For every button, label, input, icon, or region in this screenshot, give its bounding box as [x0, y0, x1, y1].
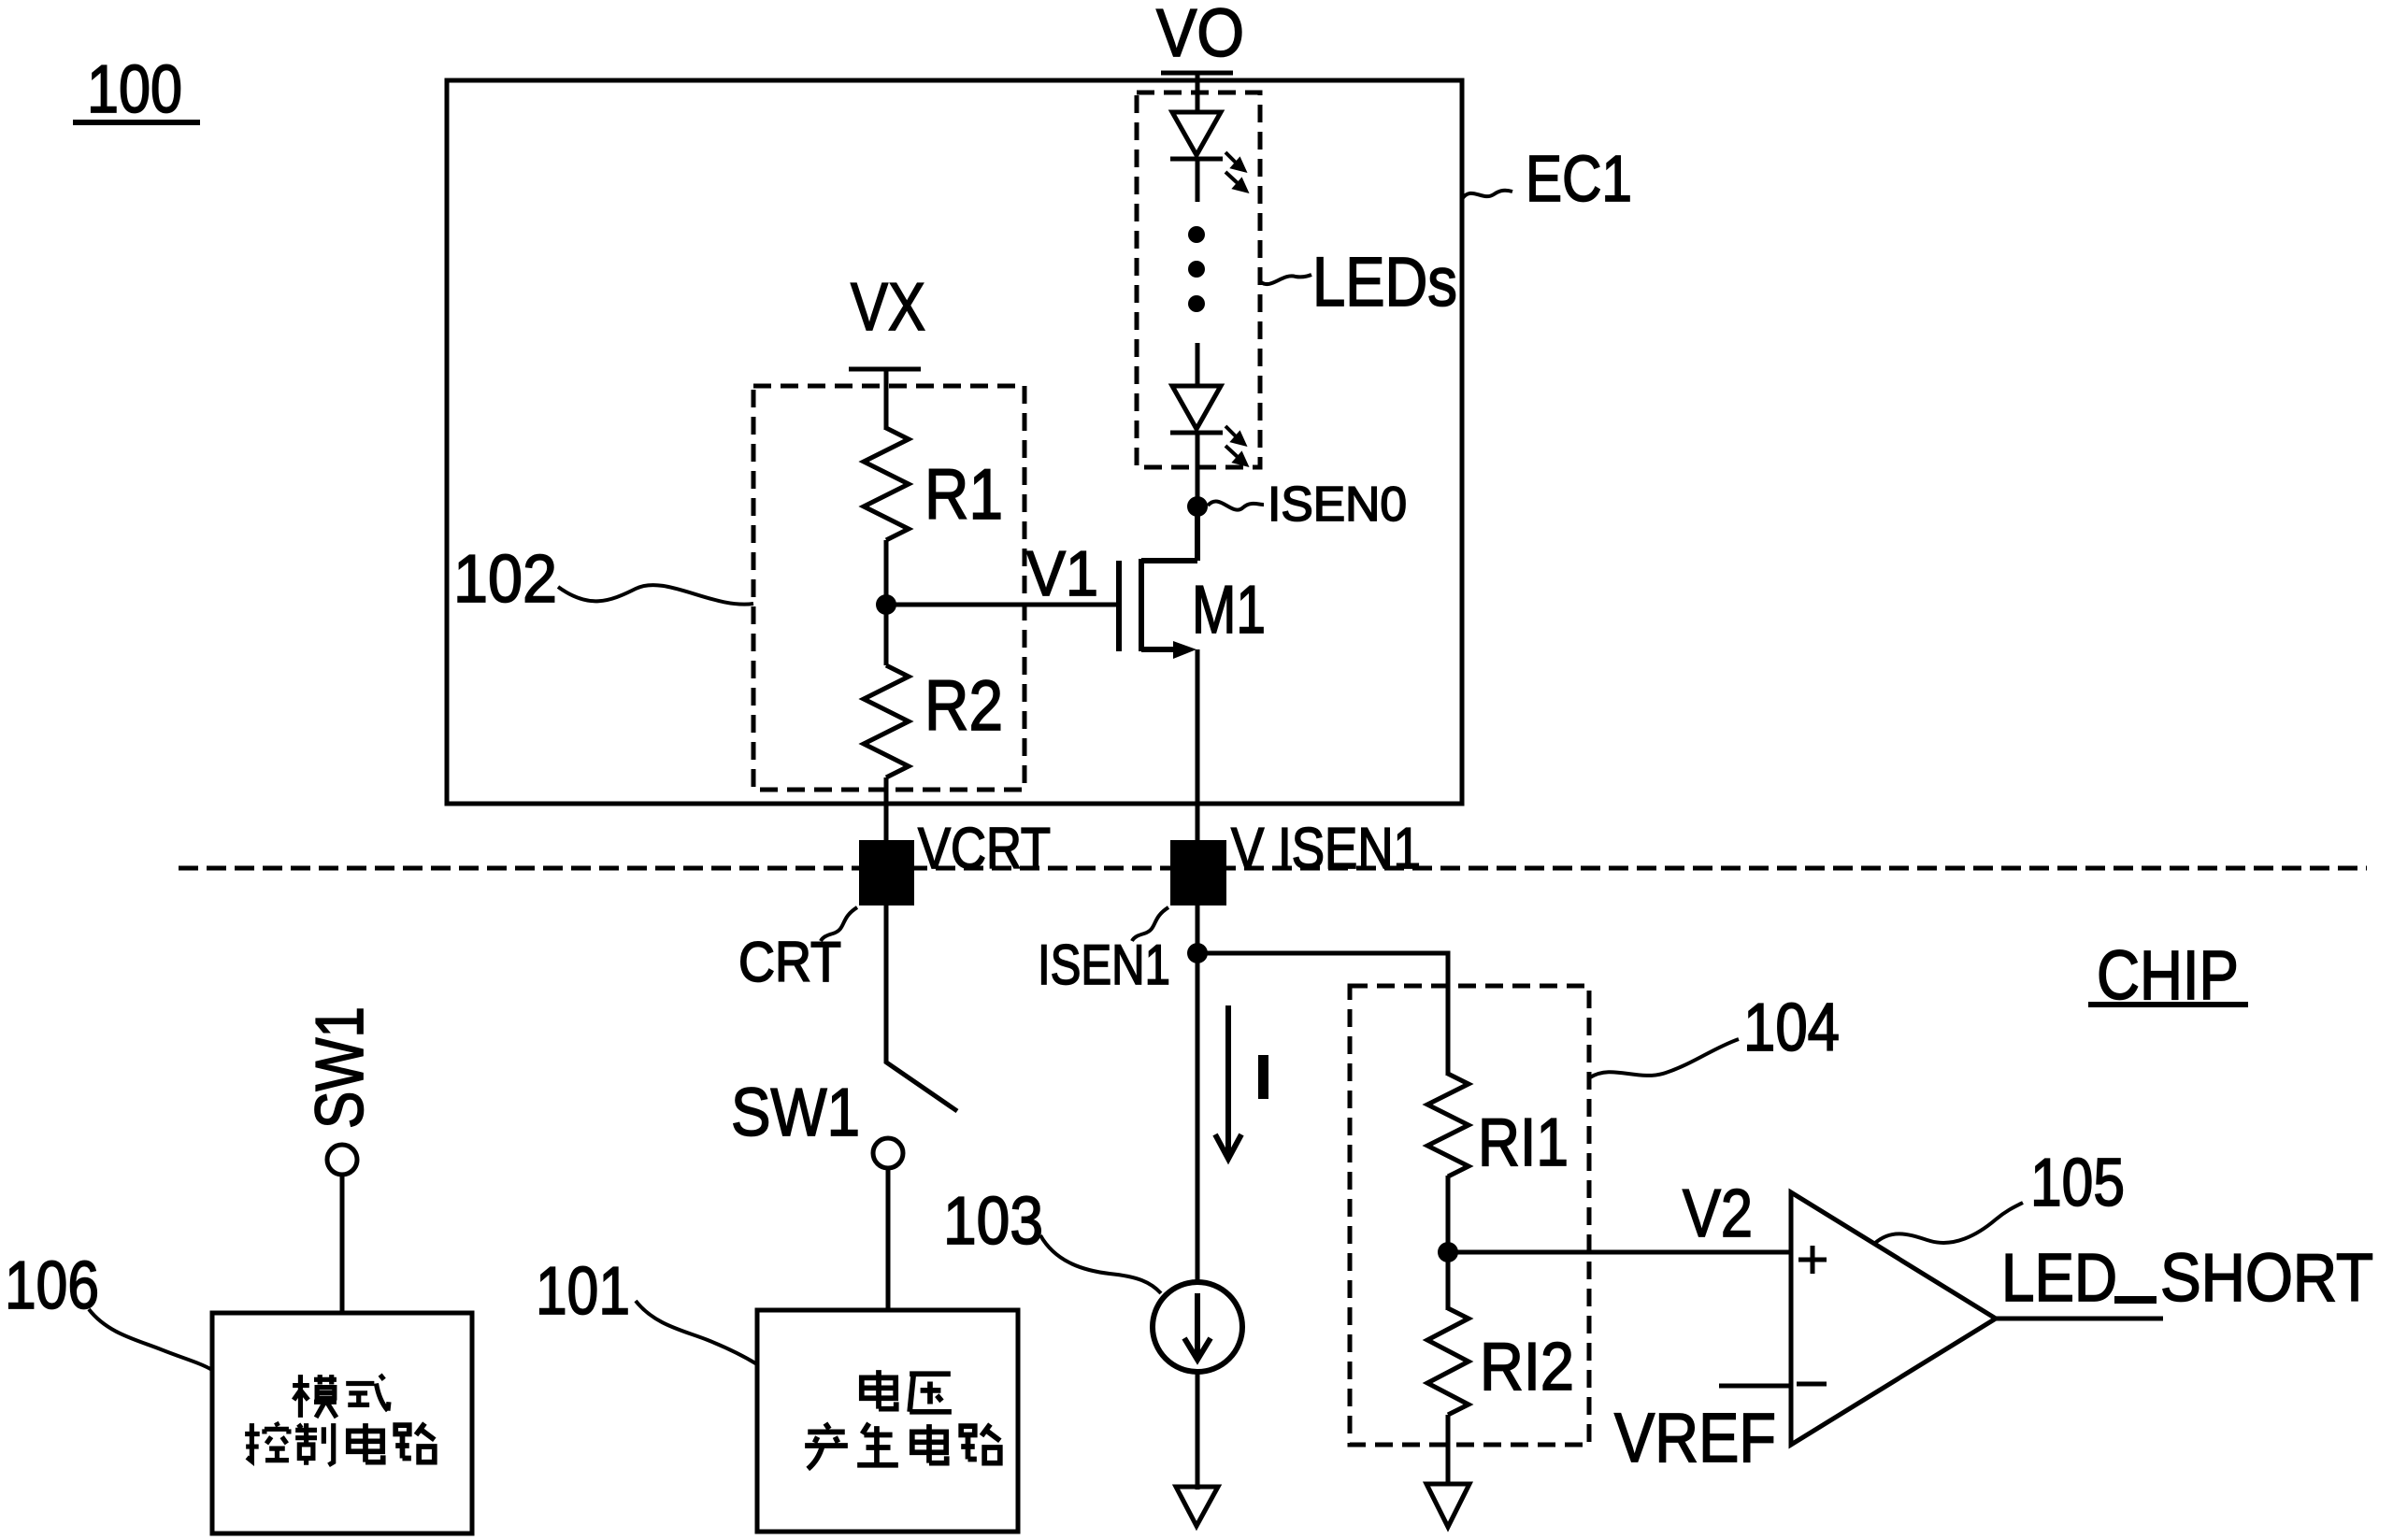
block 106 text line1: mo shi [293, 1375, 337, 1418]
M1 source arrow [1173, 641, 1196, 659]
node ISEN0 junction dot [1187, 496, 1208, 517]
block 106 text line2: kong zhi dian lu [245, 1422, 289, 1462]
LED D2 light arrows [1225, 426, 1246, 464]
VX supply rail bar [849, 367, 921, 372]
EC1 block outline [447, 80, 1462, 804]
wire R1 to node V1 [884, 540, 889, 665]
svg-text:M1: M1 [1192, 573, 1266, 648]
leader squiggle 103 [1040, 1235, 1161, 1293]
block 101 voltage generation circuit [757, 1310, 1018, 1532]
leader squiggle 102 [558, 585, 753, 605]
leader squiggle 101 [636, 1301, 757, 1364]
wire SW1 to block 101 [886, 1168, 891, 1310]
svg-text:105: 105 [2030, 1146, 2125, 1220]
svg-text:V1: V1 [1026, 538, 1098, 609]
switch SW1 blade [885, 1062, 957, 1111]
svg-text:RI1: RI1 [1478, 1105, 1569, 1180]
svg-text:SW1: SW1 [731, 1076, 860, 1150]
svg-text:R2: R2 [924, 666, 1003, 746]
comparator minus sign [1797, 1382, 1827, 1387]
leader squiggle EC1 [1462, 191, 1512, 199]
svg-text:V ISEN1: V ISEN1 [1231, 817, 1421, 881]
block 101 text line2: chan sheng dian lu [805, 1423, 848, 1469]
current arrow I [1225, 1005, 1231, 1157]
svg-text:CRT: CRT [738, 931, 841, 993]
wire VREF stub to comparator minus input [1719, 1384, 1791, 1389]
svg-text:106: 106 [5, 1248, 99, 1323]
leader squiggle 105 [1874, 1203, 2023, 1244]
svg-text:101: 101 [536, 1254, 630, 1329]
node ISEN1 junction dot [1187, 943, 1208, 963]
svg-text:100: 100 [87, 52, 182, 127]
leader squiggle 104 [1590, 1039, 1739, 1077]
underline for 100 [73, 120, 200, 125]
comparator U105 [1791, 1192, 1996, 1445]
VO supply rail bar [1161, 71, 1233, 76]
leader squiggle 106 [89, 1309, 212, 1370]
wire RI1 to node V2 [1446, 1176, 1451, 1310]
svg-text:ISEN1: ISEN1 [1038, 934, 1170, 996]
wire V2 node to comparator [1448, 1250, 1791, 1255]
resistor R1 [864, 428, 909, 540]
wire ISEN1 node to RI1 [1197, 953, 1448, 1076]
LED D2 [1170, 343, 1223, 561]
chip boundary dashed line [179, 866, 2367, 871]
svg-text:ISEN0: ISEN0 [1268, 478, 1407, 532]
svg-text:SHORT: SHORT [2160, 1241, 2373, 1316]
svg-text:103: 103 [943, 1184, 1043, 1259]
underline for CHIP [2088, 1002, 2248, 1007]
comparator plus sign [1798, 1246, 1827, 1274]
sense divider 104 dashed box [1350, 986, 1589, 1445]
svg-text:EC1: EC1 [1526, 142, 1632, 215]
leader squiggle LEDs [1261, 275, 1311, 284]
wire RI2 to ground [1446, 1415, 1451, 1486]
svg-text:VX: VX [851, 270, 925, 345]
resistor RI1 [1427, 1074, 1469, 1176]
pad VCRT [859, 840, 914, 905]
svg-text:VREF: VREF [1614, 1399, 1776, 1476]
node V1 junction dot [876, 594, 896, 615]
divider block 102 dashed box [753, 386, 1025, 790]
leader squiggle CRT [821, 907, 857, 941]
switch SW1 contact circle [873, 1138, 903, 1168]
svg-text:R1: R1 [924, 455, 1003, 535]
svg-text:RI2: RI2 [1480, 1330, 1574, 1405]
svg-text:LED: LED [2001, 1241, 2117, 1316]
svg-text:LEDs: LEDs [1312, 243, 1457, 321]
svg-text:104: 104 [1743, 991, 1840, 1065]
wire VO rail to LED1 [1196, 73, 1200, 114]
transistor M1 [1119, 506, 1197, 651]
LEDs dashed enclosure [1137, 93, 1260, 467]
LED D1 light arrows [1225, 152, 1246, 191]
leader squiggle ISEN1 [1132, 907, 1168, 941]
pad V ISEN1 [1170, 840, 1226, 905]
resistor R2 [864, 665, 909, 777]
wire V1 node to M1 gate [886, 603, 1119, 607]
leader squiggle ISEN0 [1208, 501, 1264, 509]
node V2 junction dot [1438, 1242, 1458, 1262]
wire VX rail to R1 [884, 369, 889, 430]
svg-text:V2: V2 [1683, 1176, 1753, 1251]
terminal SW1 left circle [327, 1145, 357, 1175]
wire current source to ground [1196, 1372, 1200, 1490]
ground under RI2 [1426, 1484, 1469, 1527]
wire M1 source down to pad and I node [1196, 649, 1200, 1284]
svg-text:VO: VO [1156, 0, 1244, 71]
svg-text:VCRT: VCRT [918, 817, 1051, 881]
ellipsis dots between LEDs [1188, 226, 1205, 243]
label I [1258, 1055, 1268, 1099]
block 101 text line1: dian ya [862, 1370, 896, 1409]
svg-text:SW1: SW1 [303, 1006, 378, 1129]
wire SW1 terminal to block 106 [340, 1175, 345, 1313]
ground under current source [1176, 1487, 1218, 1526]
block 106 mode control circuit [212, 1313, 472, 1533]
current source 103 [1153, 1282, 1242, 1372]
LED D1 [1170, 112, 1223, 202]
wire comparator output [1996, 1317, 2163, 1321]
svg-text:102: 102 [453, 542, 557, 617]
wire R2 to pad VCRT and switch SW1 [884, 777, 889, 1063]
resistor RI2 [1427, 1308, 1469, 1415]
